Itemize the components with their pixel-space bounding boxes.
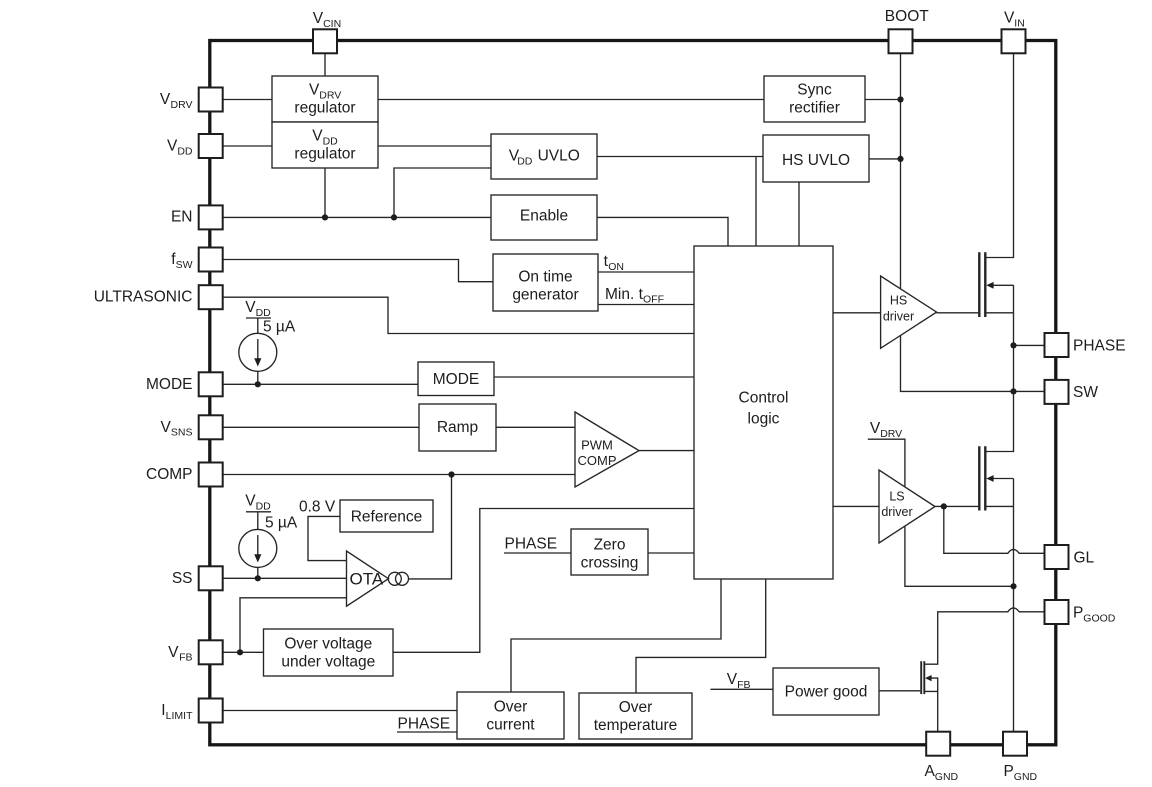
pin PGOOD	[1045, 600, 1069, 624]
block MODE	[418, 362, 494, 396]
wire Min tOFF to Control logic	[598, 304, 694, 306]
svg-text:Ramp: Ramp	[437, 419, 478, 436]
wire Q2 source rail to PGND	[1013, 479, 1015, 732]
wire fSW pin to On time generator	[223, 260, 494, 282]
junction LS gate node	[941, 503, 947, 509]
wire Enable output to Control logic top	[597, 217, 728, 246]
svg-text:HS UVLO: HS UVLO	[782, 152, 850, 169]
block Control logic	[694, 246, 833, 579]
wire Reference output to OTA input	[308, 516, 347, 560]
buffer LS driver	[879, 470, 935, 543]
svg-text:COMP: COMP	[146, 466, 193, 483]
svg-text:GOOD: GOOD	[1083, 613, 1116, 625]
svg-text:rectifier: rectifier	[789, 99, 840, 116]
svg-text:PHASE: PHASE	[505, 535, 558, 552]
pin VDRV	[199, 88, 223, 112]
wire Power good to Q3 gate	[879, 690, 920, 692]
wire VFB pin to Over voltage block	[223, 651, 264, 653]
svg-text:UVLO: UVLO	[538, 148, 580, 165]
junction current source I1 x MODE	[255, 381, 261, 387]
junction current source I2 x SS	[255, 575, 261, 581]
wire HS driver return to SW net	[901, 335, 1014, 391]
wire Over voltage block to Control logic	[393, 509, 694, 653]
svg-text:CIN: CIN	[323, 18, 341, 30]
wire SS pin to OTA	[223, 577, 347, 579]
pin fSW	[199, 248, 223, 272]
junction SW node	[1010, 388, 1016, 394]
svg-text:GND: GND	[935, 771, 959, 783]
wire VDRV regulator to Sync rectifier	[378, 99, 764, 101]
wire VIN pin to Q1 drain	[985, 53, 1013, 257]
pin PHASE	[1045, 333, 1069, 357]
svg-text:generator: generator	[512, 287, 578, 304]
wire PWM comparator output to Control logic	[639, 450, 694, 452]
pin VDD	[199, 134, 223, 158]
svg-text:SS: SS	[172, 570, 193, 587]
svg-text:ULTRASONIC: ULTRASONIC	[94, 289, 193, 306]
junction HS UVLO x BOOT	[897, 156, 903, 162]
svg-text:Over: Over	[494, 699, 528, 716]
junction EN x VDD UVLO riser	[391, 214, 397, 220]
block VDRV regulator	[272, 76, 378, 122]
pin ULTRASONIC	[199, 285, 223, 309]
power rail VDD for I1	[246, 318, 271, 333]
svg-text:driver: driver	[881, 505, 912, 519]
svg-text:PHASE: PHASE	[398, 716, 451, 733]
pin VFB	[199, 640, 223, 664]
wire Sync rectifier output to BOOT net	[865, 99, 901, 101]
wire OTA output to COMP net	[409, 475, 452, 579]
current source I2 5uA circle	[239, 529, 277, 567]
wire VDRV supply to LS driver	[868, 439, 905, 487]
svg-text:5 µA: 5 µA	[265, 514, 298, 531]
junction COMP x OTA output	[448, 471, 454, 477]
svg-text:DD: DD	[256, 500, 272, 512]
block Over temperature	[579, 693, 692, 739]
junction Sync rectifier x BOOT	[897, 96, 903, 102]
wire Q2 source stub	[985, 505, 1013, 507]
transistor Q1 high side MOSFET	[978, 252, 980, 317]
op-amp OTA	[347, 551, 389, 606]
wire SW net to PHASE pin	[1014, 344, 1045, 346]
wire Q3 source stub to AGND	[924, 691, 937, 731]
block Reference	[340, 500, 433, 532]
pin BOOT	[889, 29, 913, 53]
wire VDD pin to VDD regulator	[223, 145, 273, 147]
wire Control logic to LS driver	[833, 505, 879, 507]
svg-text:Power good: Power good	[785, 684, 868, 701]
OTA output double circle symbol	[388, 572, 401, 585]
pin GL	[1045, 545, 1069, 569]
wire LS driver return to source rail	[905, 526, 1014, 586]
svg-text:V: V	[161, 419, 172, 436]
svg-text:GL: GL	[1074, 550, 1095, 567]
wire VSNS pin to Ramp block	[223, 426, 420, 428]
wire current source I2 to SS net	[257, 567, 259, 578]
svg-text:Over: Over	[619, 699, 653, 716]
svg-text:V: V	[160, 91, 171, 108]
svg-text:crossing: crossing	[581, 555, 639, 572]
wire VDRV pin to VDRV regulator	[223, 99, 273, 101]
svg-text:PHASE: PHASE	[1073, 338, 1126, 355]
svg-text:Over voltage: Over voltage	[284, 635, 372, 652]
svg-text:SNS: SNS	[171, 427, 193, 439]
wire VCIN to VDRV regulator	[324, 53, 326, 76]
wire tON to Control logic	[598, 271, 694, 273]
svg-text:BOOT: BOOT	[885, 8, 929, 25]
block On time generator	[493, 254, 598, 311]
junction EN x VDD regulator	[322, 214, 328, 220]
block Ramp	[419, 404, 496, 451]
svg-text:Control: Control	[739, 390, 789, 407]
svg-text:COMP: COMP	[578, 453, 617, 468]
wire PHASE label to Zero crossing	[504, 552, 571, 554]
svg-text:DD: DD	[256, 307, 272, 319]
svg-text:MODE: MODE	[433, 371, 480, 388]
wire SW net to SW pin	[1014, 390, 1045, 392]
svg-text:Min. t: Min. t	[605, 286, 644, 303]
buffer HS driver	[881, 276, 937, 348]
wire Over temperature to Control logic bottom	[636, 579, 766, 693]
wire PHASE label to Over current block	[397, 731, 457, 733]
svg-text:ON: ON	[608, 261, 624, 273]
svg-text:logic: logic	[748, 411, 780, 428]
block Enable	[491, 195, 597, 240]
svg-text:LIMIT: LIMIT	[166, 710, 193, 722]
svg-text:SW: SW	[176, 259, 193, 271]
junction LS driver return node	[1010, 583, 1016, 589]
wire VDD regulator bottom to EN net	[324, 168, 326, 217]
wire OTA inverting input to VFB net	[240, 598, 347, 653]
svg-text:GND: GND	[1014, 771, 1038, 783]
pin ILIMIT	[199, 699, 223, 723]
wire Q1 body link	[992, 284, 1014, 286]
svg-text:regulator: regulator	[294, 99, 355, 116]
svg-text:temperature: temperature	[594, 717, 678, 734]
wire HS driver to Q1 gate	[937, 312, 979, 314]
IC boundary border	[210, 41, 1056, 745]
svg-text:OTA: OTA	[350, 570, 384, 589]
wire ULTRASONIC pin to Control logic	[223, 297, 695, 333]
svg-text:P: P	[1073, 605, 1083, 622]
svg-text:On time: On time	[518, 269, 572, 286]
svg-text:IN: IN	[1014, 18, 1025, 30]
wire VDD regulator to VDD UVLO	[378, 145, 491, 147]
wire COMP pin to PWM comparator	[223, 474, 576, 476]
wire LS driver to Q2 gate	[935, 505, 978, 507]
wire Q2 body link	[992, 478, 1014, 480]
transistor Q3 power good MOSFET	[920, 661, 922, 694]
pin SW	[1045, 380, 1069, 404]
pin VCIN	[313, 29, 337, 53]
svg-text:SW: SW	[1073, 384, 1098, 401]
wire EN net riser to VDD UVLO lower input	[394, 168, 491, 217]
wire VFB label to Power good block	[711, 688, 774, 690]
pin PGND	[1003, 732, 1027, 756]
wire MODE pin to MODE block	[223, 383, 419, 385]
wire BOOT net vertical	[900, 53, 902, 288]
junction PHASE node	[1010, 342, 1016, 348]
wire MODE block to Control logic	[494, 376, 694, 378]
pin EN	[199, 205, 223, 229]
block VDD UVLO	[491, 134, 597, 179]
pin SS	[199, 566, 223, 590]
svg-text:regulator: regulator	[294, 145, 355, 162]
wire HS UVLO bottom to Control logic top	[798, 182, 800, 246]
svg-text:FB: FB	[179, 652, 192, 664]
svg-text:Enable: Enable	[520, 208, 568, 225]
svg-text:P: P	[1004, 763, 1014, 780]
svg-text:V: V	[167, 138, 178, 155]
svg-text:Sync: Sync	[797, 81, 832, 98]
pin COMP	[199, 463, 223, 487]
wire Zero crossing to Control logic	[648, 552, 694, 554]
pin VSNS	[199, 415, 223, 439]
svg-text:DRV: DRV	[880, 428, 902, 440]
wire VDD UVLO output to HS UVLO input	[597, 156, 763, 158]
comparator PWM COMP	[575, 412, 639, 487]
svg-text:Zero: Zero	[594, 537, 626, 554]
block HS UVLO	[763, 135, 869, 182]
svg-text:PWM: PWM	[581, 438, 613, 453]
block Over voltage under voltage	[264, 629, 394, 676]
svg-text:driver: driver	[883, 309, 914, 323]
svg-text:V: V	[168, 644, 179, 661]
wire GL branch with hop over source rail	[944, 506, 1045, 553]
svg-text:current: current	[486, 717, 535, 734]
block Zero crossing	[571, 529, 648, 575]
block VDD regulator	[272, 122, 378, 168]
wire HS UVLO output to BOOT net	[869, 158, 901, 160]
svg-text:FB: FB	[737, 679, 750, 691]
pin MODE	[199, 372, 223, 396]
svg-text:HS: HS	[890, 294, 907, 308]
current source I1 5uA circle	[239, 333, 277, 371]
svg-text:OFF: OFF	[643, 294, 664, 306]
svg-text:DRV: DRV	[171, 99, 193, 111]
transistor Q2 low side MOSFET	[978, 446, 980, 510]
svg-text:MODE: MODE	[146, 376, 193, 393]
power rail VDD for I2	[246, 512, 271, 530]
wire VDD UVLO branch down to Control logic top	[755, 157, 757, 247]
junction VFB x OTA input	[237, 649, 243, 655]
wire current source I1 to MODE net	[257, 371, 259, 384]
wire Over current to Control logic bottom	[511, 579, 721, 692]
block Sync rectifier	[764, 76, 865, 122]
svg-text:under voltage: under voltage	[281, 653, 375, 670]
wire PGOOD pin with hop to Q3 drain	[924, 608, 1044, 664]
svg-text:5 µA: 5 µA	[263, 318, 296, 335]
wire SW rail Q1 source to Q2 drain	[985, 285, 1013, 451]
wire Q3 body link	[928, 678, 938, 691]
block Over current	[457, 692, 564, 739]
pin AGND	[926, 732, 950, 756]
svg-text:LS: LS	[889, 489, 904, 503]
pin VIN	[1002, 29, 1026, 53]
svg-text:DD: DD	[517, 155, 533, 167]
wire Control logic to HS driver	[833, 312, 881, 314]
block Power good	[773, 668, 879, 715]
svg-text:Reference: Reference	[351, 509, 423, 526]
svg-text:0.8 V: 0.8 V	[299, 499, 336, 516]
svg-text:EN: EN	[171, 209, 193, 226]
svg-text:DD: DD	[177, 145, 193, 157]
wire Q1 source stub	[985, 312, 1013, 314]
wire Ramp block to PWM comparator	[496, 426, 575, 428]
wire EN pin to Enable block	[223, 216, 492, 218]
wire ILIMIT pin to Over current block	[223, 710, 458, 712]
